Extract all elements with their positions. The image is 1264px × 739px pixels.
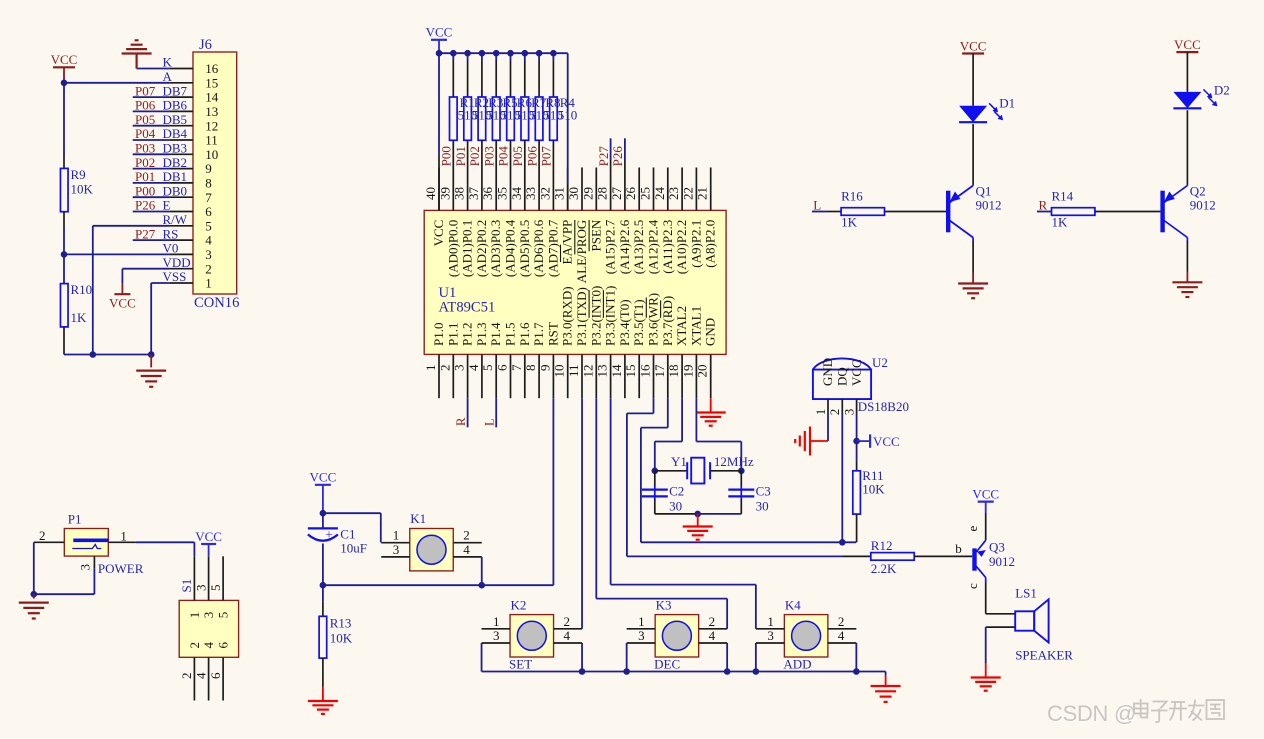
svg-text:(A13)P2.5: (A13)P2.5	[631, 220, 646, 275]
svg-text:VCC: VCC	[1174, 37, 1201, 52]
svg-text:8: 8	[205, 176, 212, 191]
svg-text:DQ: DQ	[835, 367, 850, 386]
svg-text:P00: P00	[439, 146, 454, 166]
svg-text:3: 3	[841, 409, 856, 416]
svg-text:3: 3	[193, 585, 208, 592]
svg-text:DS18B20: DS18B20	[858, 399, 909, 414]
svg-text:L: L	[481, 418, 496, 426]
svg-text:P1.7: P1.7	[531, 322, 546, 346]
svg-text:(AD0)P0.0: (AD0)P0.0	[445, 220, 460, 277]
svg-text:Y1: Y1	[671, 454, 687, 469]
svg-text:4: 4	[838, 628, 845, 643]
svg-text:2: 2	[205, 261, 212, 276]
svg-text:K3: K3	[656, 597, 672, 612]
svg-text:P3.6(WR): P3.6(WR)	[646, 293, 661, 346]
svg-text:R: R	[1039, 197, 1048, 212]
svg-text:1: 1	[767, 614, 774, 629]
svg-text:e: e	[965, 526, 980, 532]
svg-text:2: 2	[838, 614, 845, 629]
svg-text:R/W: R/W	[163, 212, 188, 227]
svg-text:14: 14	[205, 90, 219, 105]
svg-text:10uF: 10uF	[340, 540, 367, 555]
svg-text:(AD4)P0.4: (AD4)P0.4	[503, 219, 518, 277]
svg-text:+: +	[325, 526, 332, 541]
svg-text:D2: D2	[1214, 83, 1230, 98]
svg-text:L: L	[813, 197, 821, 212]
svg-text:DB2: DB2	[163, 155, 188, 170]
svg-text:DB4: DB4	[163, 126, 188, 141]
svg-text:1: 1	[393, 528, 400, 543]
svg-text:P03: P03	[481, 146, 496, 166]
svg-text:510: 510	[458, 108, 478, 123]
svg-text:12: 12	[205, 118, 218, 133]
svg-text:R16: R16	[841, 189, 863, 204]
svg-text:4: 4	[205, 233, 212, 248]
svg-text:VCC: VCC	[51, 52, 78, 67]
svg-text:3: 3	[393, 542, 400, 557]
svg-text:30: 30	[669, 498, 682, 513]
svg-text:(AD1)P0.1: (AD1)P0.1	[460, 220, 475, 277]
svg-text:P1.1: P1.1	[445, 323, 460, 346]
svg-text:(A15)P2.7: (A15)P2.7	[603, 219, 618, 274]
svg-text:K2: K2	[511, 597, 527, 612]
svg-text:6: 6	[208, 672, 223, 679]
svg-text:7: 7	[205, 190, 212, 205]
svg-text:C3: C3	[756, 483, 771, 498]
svg-text:P1.2: P1.2	[460, 323, 475, 346]
svg-text:10K: 10K	[862, 481, 885, 496]
svg-text:VCC: VCC	[972, 486, 999, 501]
svg-text:P3.4(T0): P3.4(T0)	[617, 299, 632, 346]
svg-text:9012: 9012	[989, 554, 1015, 569]
svg-text:RS: RS	[163, 226, 179, 241]
svg-text:Q3: Q3	[989, 540, 1005, 555]
svg-text:(AD6)P0.6: (AD6)P0.6	[531, 219, 546, 277]
svg-text:2: 2	[39, 528, 46, 543]
svg-text:(AD7)P0.7: (AD7)P0.7	[545, 219, 560, 277]
svg-text:P07: P07	[135, 83, 156, 98]
svg-text:XTAL2: XTAL2	[674, 306, 689, 346]
svg-text:K4: K4	[785, 597, 801, 612]
svg-text:U2: U2	[872, 355, 888, 370]
svg-text:P1.4: P1.4	[488, 322, 503, 346]
svg-text:6: 6	[216, 642, 231, 649]
svg-text:2: 2	[709, 614, 716, 629]
svg-text:(A10)P2.2: (A10)P2.2	[674, 220, 689, 275]
svg-text:PSEN: PSEN	[588, 219, 603, 251]
svg-text:LS1: LS1	[1015, 586, 1037, 601]
svg-text:4: 4	[709, 628, 716, 643]
svg-text:ADD: ADD	[783, 656, 811, 671]
svg-text:P05: P05	[135, 112, 155, 127]
svg-text:P04: P04	[135, 126, 156, 141]
svg-text:(AD3)P0.3: (AD3)P0.3	[488, 220, 503, 277]
svg-text:DB3: DB3	[163, 141, 188, 156]
svg-text:DB5: DB5	[163, 112, 188, 127]
svg-text:(A8)P2.0: (A8)P2.0	[703, 220, 718, 268]
svg-text:P3.1(TXD): P3.1(TXD)	[574, 287, 589, 346]
svg-text:V0: V0	[163, 241, 179, 256]
svg-text:R14: R14	[1052, 189, 1074, 204]
svg-text:3: 3	[205, 247, 212, 262]
svg-text:(A12)P2.4: (A12)P2.4	[646, 219, 661, 274]
svg-text:6: 6	[205, 204, 212, 219]
svg-text:30: 30	[756, 498, 769, 513]
svg-text:P02: P02	[135, 155, 155, 170]
svg-text:4: 4	[201, 642, 216, 649]
svg-text:VCC: VCC	[849, 359, 864, 386]
svg-text:SET: SET	[509, 656, 532, 671]
svg-text:R13: R13	[330, 616, 352, 631]
svg-text:16: 16	[205, 61, 219, 76]
svg-text:P3.5(T1): P3.5(T1)	[631, 299, 646, 346]
svg-text:VDD: VDD	[163, 255, 191, 270]
svg-text:C1: C1	[340, 526, 355, 541]
svg-text:4: 4	[463, 542, 470, 557]
svg-text:9: 9	[205, 161, 212, 176]
svg-text:P26: P26	[610, 146, 625, 167]
svg-text:VCC: VCC	[310, 470, 337, 485]
svg-text:P01: P01	[453, 146, 468, 166]
svg-text:R9: R9	[71, 167, 86, 182]
svg-text:2: 2	[827, 409, 842, 416]
svg-text:P01: P01	[135, 169, 155, 184]
svg-text:2: 2	[564, 614, 571, 629]
svg-text:P1.5: P1.5	[503, 323, 518, 346]
svg-text:J6: J6	[199, 37, 212, 53]
svg-text:R: R	[453, 417, 468, 426]
svg-text:12MHz: 12MHz	[714, 454, 754, 469]
svg-text:3: 3	[493, 628, 500, 643]
svg-text:1: 1	[187, 612, 202, 619]
svg-text:VCC: VCC	[431, 220, 446, 247]
svg-text:10K: 10K	[71, 182, 94, 197]
svg-text:2: 2	[187, 642, 202, 649]
svg-text:AT89C51: AT89C51	[439, 300, 496, 316]
svg-text:R12: R12	[871, 538, 893, 553]
svg-text:VCC: VCC	[960, 38, 987, 53]
svg-text:1K: 1K	[1052, 214, 1069, 229]
svg-text:(A14)P2.6: (A14)P2.6	[617, 219, 632, 274]
svg-text:15: 15	[205, 75, 218, 90]
svg-text:P3.2(INT0): P3.2(INT0)	[588, 286, 603, 346]
svg-text:CSDN @: CSDN @	[1047, 701, 1136, 726]
svg-text:P02: P02	[467, 146, 482, 166]
svg-text:SPEAKER: SPEAKER	[1015, 648, 1073, 663]
svg-text:P03: P03	[135, 141, 155, 156]
svg-text:1: 1	[120, 529, 127, 544]
svg-text:RST: RST	[545, 322, 560, 346]
svg-text:DB1: DB1	[163, 169, 188, 184]
svg-text:2.2K: 2.2K	[871, 561, 897, 576]
svg-text:5: 5	[216, 612, 231, 619]
svg-text:2: 2	[463, 528, 470, 543]
svg-text:A: A	[163, 69, 173, 84]
svg-text:10K: 10K	[330, 630, 353, 645]
svg-text:4: 4	[564, 628, 571, 643]
svg-text:3: 3	[201, 612, 216, 619]
svg-text:GND: GND	[820, 358, 835, 386]
svg-text:DB6: DB6	[163, 98, 188, 113]
svg-text:CON16: CON16	[194, 295, 239, 311]
svg-text:3: 3	[78, 564, 93, 571]
svg-text:P06: P06	[524, 146, 539, 167]
svg-text:DB0: DB0	[163, 183, 188, 198]
svg-text:XTAL1: XTAL1	[688, 306, 703, 346]
svg-text:ALE/PROG: ALE/PROG	[574, 220, 589, 284]
svg-text:VSS: VSS	[163, 269, 187, 284]
svg-text:1: 1	[423, 365, 438, 372]
svg-text:c: c	[965, 583, 980, 589]
svg-text:(AD2)P0.2: (AD2)P0.2	[474, 220, 489, 277]
svg-text:VCC: VCC	[195, 529, 222, 544]
svg-text:P27: P27	[135, 226, 156, 241]
svg-text:3: 3	[767, 628, 774, 643]
svg-text:R10: R10	[71, 282, 93, 297]
svg-text:P27: P27	[596, 146, 611, 167]
svg-text:P3.3(INT1): P3.3(INT1)	[603, 286, 618, 346]
svg-text:5: 5	[208, 585, 223, 592]
svg-text:3: 3	[638, 628, 645, 643]
svg-text:4: 4	[193, 672, 208, 679]
svg-text:(A11)P2.3: (A11)P2.3	[660, 220, 675, 274]
svg-text:P1.6: P1.6	[517, 322, 532, 346]
svg-text:P00: P00	[135, 183, 155, 198]
svg-text:10: 10	[205, 147, 218, 162]
svg-text:13: 13	[205, 104, 218, 119]
svg-text:11: 11	[205, 133, 218, 148]
svg-text:P1: P1	[68, 511, 82, 526]
svg-text:1: 1	[813, 409, 828, 416]
svg-text:P3.7(RD): P3.7(RD)	[660, 296, 675, 346]
svg-text:P05: P05	[510, 146, 525, 166]
svg-text:E: E	[163, 198, 171, 213]
svg-text:9012: 9012	[1190, 198, 1216, 213]
svg-text:DB7: DB7	[163, 83, 188, 98]
svg-text:b: b	[955, 541, 962, 556]
svg-text:VCC: VCC	[109, 296, 136, 311]
svg-text:EA/VPP: EA/VPP	[560, 220, 575, 265]
svg-text:D1: D1	[999, 96, 1015, 111]
svg-text:9012: 9012	[976, 198, 1002, 213]
svg-text:1: 1	[205, 276, 212, 291]
svg-text:P1.0: P1.0	[431, 323, 446, 346]
svg-text:1K: 1K	[841, 214, 858, 229]
svg-text:40: 40	[423, 187, 438, 200]
svg-text:P1.3: P1.3	[474, 323, 489, 346]
svg-text:VCC: VCC	[873, 434, 900, 449]
svg-text:P3.0(RXD): P3.0(RXD)	[560, 286, 575, 346]
svg-text:5: 5	[205, 218, 212, 233]
svg-text:DEC: DEC	[654, 656, 680, 671]
svg-text:S1: S1	[179, 579, 194, 593]
svg-text:C2: C2	[669, 483, 684, 498]
svg-text:GND: GND	[703, 318, 718, 346]
svg-text:(AD5)P0.5: (AD5)P0.5	[517, 220, 532, 277]
svg-text:2: 2	[179, 673, 194, 680]
svg-text:1: 1	[493, 614, 500, 629]
svg-text:P07: P07	[539, 146, 554, 167]
svg-text:P06: P06	[135, 98, 156, 113]
svg-text:1: 1	[638, 614, 645, 629]
svg-text:K1: K1	[410, 511, 426, 526]
svg-text:K: K	[163, 55, 173, 70]
svg-text:(A9)P2.1: (A9)P2.1	[688, 220, 703, 268]
svg-text:1K: 1K	[71, 310, 88, 325]
svg-text:Q1: Q1	[976, 184, 992, 199]
svg-text:P26: P26	[135, 198, 156, 213]
svg-text:VCC: VCC	[426, 25, 453, 40]
svg-text:Q2: Q2	[1190, 184, 1206, 199]
svg-text:P04: P04	[496, 146, 511, 167]
svg-text:POWER: POWER	[98, 561, 144, 576]
